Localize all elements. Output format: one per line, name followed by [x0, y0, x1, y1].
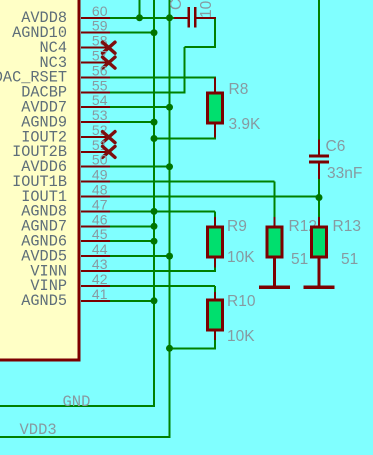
wire pin 45 AGND6 row — [110, 240, 155, 242]
svg-text:R8: R8 — [229, 81, 249, 98]
svg-text:10n: 10n — [198, 0, 215, 18]
wire C5 right to jog — [214, 18, 216, 48]
wire C6 bottom to IOUT1 node — [318, 179, 320, 198]
svg-text:R9: R9 — [227, 218, 247, 235]
svg-text:46: 46 — [92, 211, 108, 227]
resistor R13 top lead — [318, 217, 320, 227]
wire vertical to C6 top — [318, 0, 320, 141]
junction AGND5/pin41 — [151, 297, 158, 304]
resistor R10 bottom lead — [214, 332, 216, 342]
wire pin 44 AVDD5 row — [110, 255, 171, 257]
svg-text:VDD3: VDD3 — [20, 421, 57, 439]
wire DACBP jog vertical — [184, 47, 186, 94]
svg-text:42: 42 — [92, 271, 108, 287]
resistor R9 body — [208, 227, 223, 257]
svg-text:55: 55 — [92, 77, 108, 93]
IC U? body (DAC, pins 41-60) — [0, 0, 79, 360]
svg-text:47: 47 — [92, 196, 108, 212]
capacitor C5 left plate — [188, 7, 191, 27]
pin 45 stub — [81, 240, 110, 242]
resistor R12 body — [267, 227, 282, 257]
wire pin 60 AVDD8 row — [110, 17, 177, 19]
pin 59 stub — [81, 32, 110, 34]
junction AVDD7/pin54 — [166, 104, 173, 111]
wire pin 54 AVDD7 row — [110, 106, 171, 108]
svg-text:49: 49 — [92, 167, 108, 183]
svg-text:48: 48 — [92, 182, 108, 198]
resistor R12 bottom lead — [273, 259, 276, 286]
resistor R12 top lead — [274, 217, 276, 227]
svg-text:10K: 10K — [227, 249, 255, 266]
wire vertical AVDD branch (top, to pin 60) — [139, 0, 141, 19]
no-connect X on pin 51 — [103, 146, 116, 157]
ground bar under R13 — [304, 286, 335, 290]
resistor R8 bottom lead — [214, 125, 216, 139]
pin 53 stub — [81, 121, 110, 123]
pin 54 stub — [81, 106, 110, 108]
svg-text:10K: 10K — [227, 328, 255, 345]
no-connect X on pin 52 — [103, 132, 116, 143]
pin 44 stub — [81, 255, 110, 257]
ground bar under R12 — [259, 286, 290, 290]
junction IOUT1/C6/R13 — [316, 194, 323, 201]
no-connect X on pin 57 — [103, 57, 116, 68]
junction AVDD8/pin60 right — [166, 14, 173, 21]
wire IOUT1 node down to R13 — [318, 197, 320, 218]
pin 41 stub — [81, 300, 110, 302]
capacitor C5 right lead — [197, 17, 216, 19]
wire R9 bottom to VINN row — [214, 268, 216, 273]
resistor R10 top lead — [214, 292, 216, 300]
resistor R8 body — [208, 93, 223, 123]
resistor R13 bottom lead — [318, 259, 321, 286]
wire DACBP jog horizontal — [185, 46, 216, 48]
svg-text:GND: GND — [63, 393, 91, 411]
pin 47 stub — [81, 210, 110, 212]
no-connect X on pin 58 — [103, 42, 116, 53]
svg-text:60: 60 — [92, 3, 108, 19]
junction AGND8/pin47 — [151, 208, 158, 215]
svg-text:33nF: 33nF — [327, 165, 362, 182]
pin 43 stub — [81, 270, 110, 272]
junction AGND6/pin45 — [151, 238, 158, 245]
wire vertical AVDD/VDD3 bus — [169, 0, 171, 438]
svg-text:C6: C6 — [326, 138, 346, 155]
svg-text:AGND5: AGND5 — [21, 292, 67, 310]
junction R8 bottom to AGND bus — [151, 135, 158, 142]
resistor R12 top lead wire — [274, 182, 276, 218]
svg-text:C5: C5 — [168, 0, 185, 10]
svg-text:50: 50 — [92, 152, 108, 168]
junction AVDD6/pin50 — [166, 163, 173, 170]
junction AVDD8/pin60 left — [136, 14, 143, 21]
wire vertical AGND bus — [153, 0, 155, 407]
wire pin 41 AGND5 row — [110, 300, 155, 302]
svg-text:45: 45 — [92, 226, 108, 242]
wire R10 bottom to VDD3 bus — [170, 347, 217, 349]
pin 58 stub — [81, 47, 110, 49]
wire pin 42 VINP row to R10 top — [110, 285, 215, 287]
capacitor C6 top plate — [309, 155, 329, 158]
junction R10 bottom to VDD3 bus — [166, 345, 173, 352]
wire pin 47 AGND8 row to R9 top — [110, 210, 215, 212]
wire GND rail — [0, 405, 155, 407]
svg-text:43: 43 — [92, 256, 108, 272]
wire pin 55 DACBP row — [110, 91, 186, 93]
resistor R8 top lead — [214, 77, 216, 93]
pin 48 stub — [81, 196, 110, 198]
junction AGND10/pin59 — [151, 29, 158, 36]
resistor R9 bottom lead — [214, 259, 216, 269]
svg-text:41: 41 — [92, 286, 108, 302]
junction AVDD5/pin44 — [166, 253, 173, 260]
resistor R9 top lead — [214, 217, 216, 227]
resistor R9 top lead wire — [214, 211, 216, 218]
svg-text:56: 56 — [92, 62, 108, 78]
resistor R10 top lead wire — [214, 286, 216, 293]
svg-text:54: 54 — [92, 92, 108, 108]
pin 49 stub — [81, 181, 110, 183]
wire pin 46 AGND7 row — [110, 225, 155, 227]
svg-text:51: 51 — [291, 251, 308, 268]
capacitor C6 top lead — [318, 140, 320, 155]
wire pin 49 IOUT1B row to R12 — [110, 181, 275, 183]
pin 57 stub — [81, 62, 110, 64]
pin 42 stub — [81, 285, 110, 287]
svg-text:R10: R10 — [227, 293, 256, 310]
pin 55 stub — [81, 91, 110, 93]
svg-text:3.9K: 3.9K — [229, 116, 262, 133]
wire pin 43 VINN row to R9 bottom — [110, 270, 215, 272]
capacitor C5 right plate — [194, 7, 197, 27]
svg-text:44: 44 — [92, 241, 108, 257]
pin 46 stub — [81, 225, 110, 227]
pin 52 stub — [81, 136, 110, 138]
pin 60 stub — [81, 17, 110, 19]
wire R10 bottom jog — [214, 340, 216, 348]
svg-text:R13: R13 — [333, 218, 361, 235]
wire pin 53 AGND9 row — [110, 121, 155, 123]
resistor R10 body — [208, 300, 223, 330]
wire pin 59 AGND10 row — [110, 32, 155, 34]
wire R8 bottom to AGND bus — [154, 138, 216, 140]
capacitor C6 bottom plate — [309, 160, 329, 163]
capacitor C6 bottom lead — [318, 164, 320, 181]
junction AGND7/pin46 — [151, 223, 158, 230]
wire pin 50 AVDD6 row — [110, 166, 171, 168]
capacitor C5 left lead — [174, 17, 188, 19]
pin 50 stub — [81, 166, 110, 168]
pin 56 stub — [81, 76, 110, 78]
wire pin 56 DAC_RSET row to R8 top — [110, 76, 216, 78]
wire pin 48 IOUT1 row to C6/R13 node — [110, 196, 319, 198]
svg-text:51: 51 — [341, 251, 358, 268]
svg-text:59: 59 — [92, 18, 108, 34]
svg-text:53: 53 — [92, 107, 108, 123]
pin 51 stub — [81, 151, 110, 153]
resistor R13 body — [312, 227, 327, 257]
junction AGND9/pin53 — [151, 119, 158, 126]
wire VDD3 rail — [0, 436, 171, 438]
